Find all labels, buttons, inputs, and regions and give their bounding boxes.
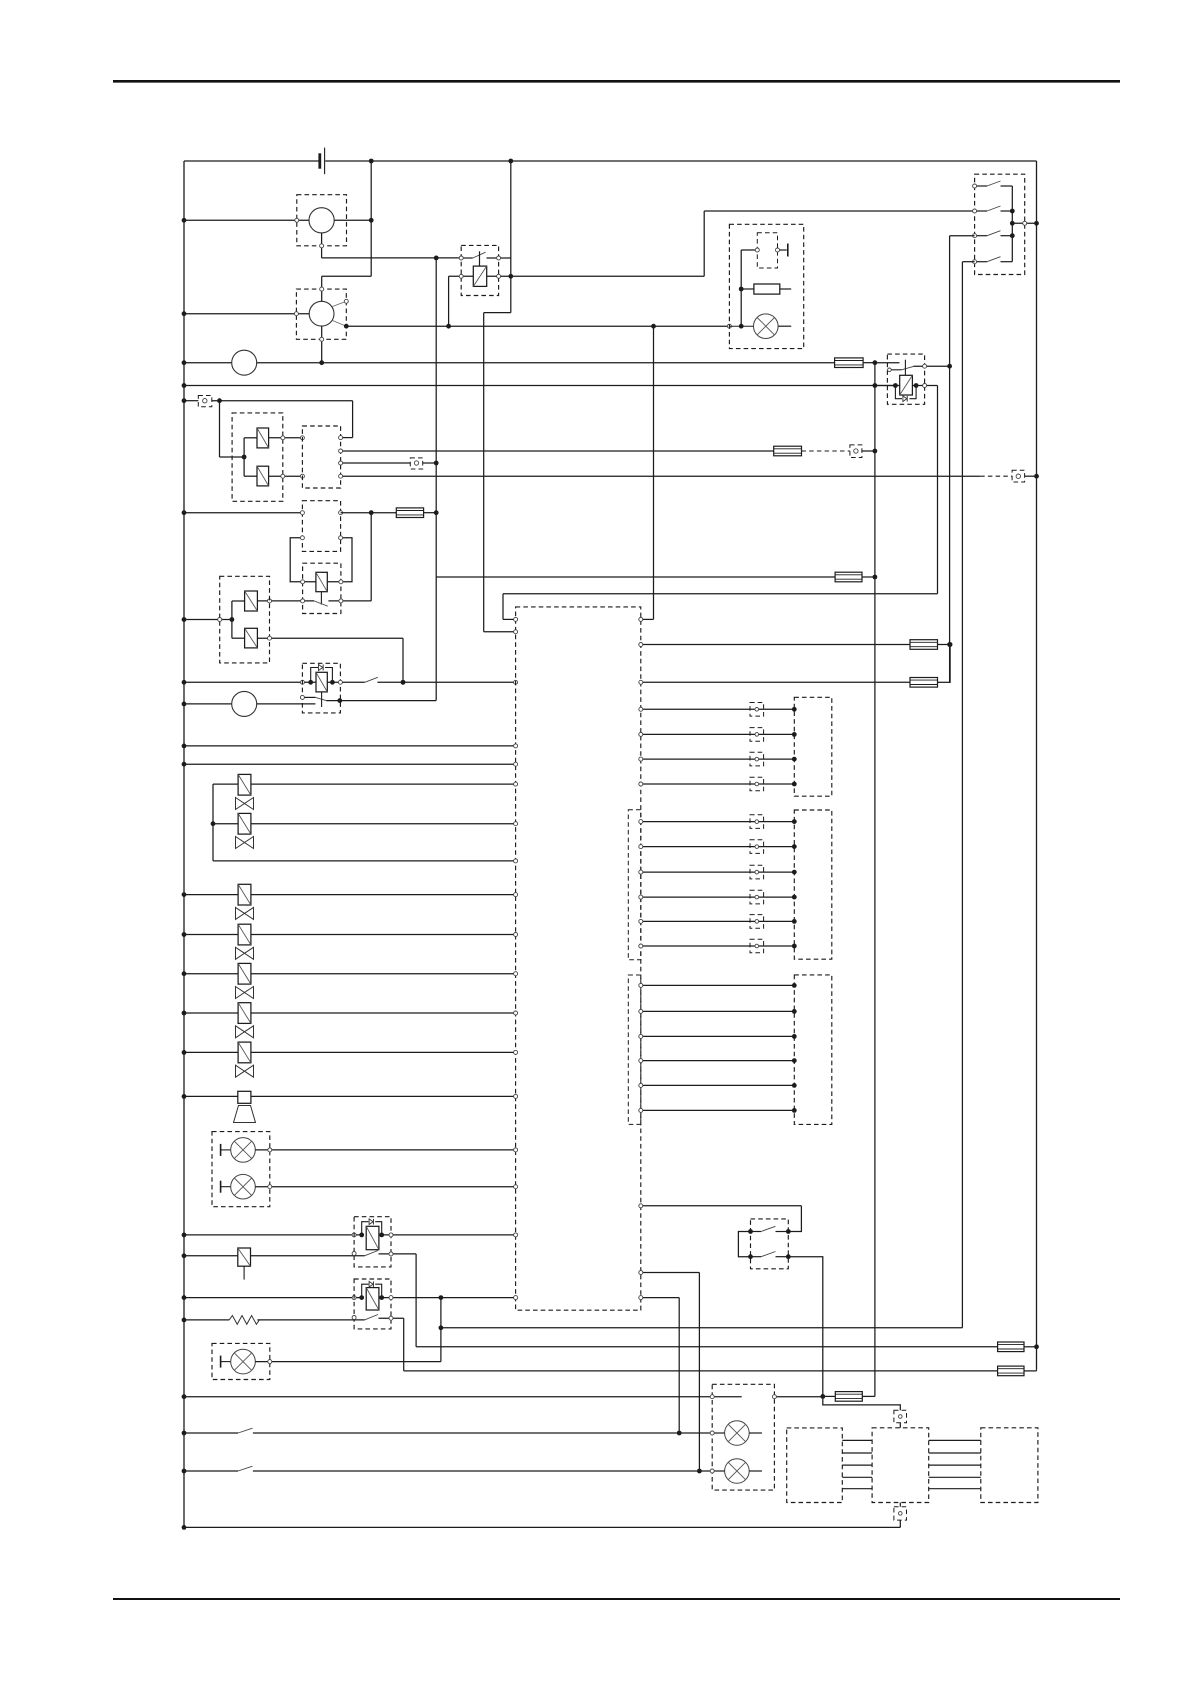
wire flasher up x371 [370, 513, 372, 601]
solenoid valve V7 [238, 1042, 251, 1063]
relay R3 contact NC [302, 696, 315, 698]
wire harness C y1011 [641, 1010, 795, 1012]
relay R4 [354, 1217, 391, 1267]
wire module B pin2 fused [341, 450, 774, 452]
relay R3 [302, 663, 340, 713]
connector B y846 [750, 840, 764, 854]
wire connector C1 node [212, 400, 353, 402]
switch SW2 [751, 1219, 789, 1269]
wire vertical x436 [435, 258, 437, 701]
module C [302, 501, 340, 552]
connector B y921 [750, 915, 764, 929]
wire G2 output [346, 325, 729, 327]
flasher contact stem [320, 592, 322, 605]
wire fuse D to x436 [424, 512, 437, 514]
ECU bracket E2 [628, 810, 641, 960]
wire bottom ground [184, 1526, 900, 1528]
wire harness C y1085 [641, 1084, 795, 1086]
flasher switch wire [257, 600, 314, 602]
wire meter to fuse A [257, 362, 835, 364]
wire SW2 out drop x822 [788, 1257, 823, 1397]
wire R1 coil right [487, 275, 705, 277]
wire resistor to R5 contact [257, 1319, 364, 1321]
relay R3 contact out [326, 700, 436, 702]
wire valve V5 row [184, 973, 238, 975]
wire y593 to ECU [503, 593, 938, 595]
relay R4 blade [365, 1251, 379, 1256]
switch SW-A blade [238, 1428, 253, 1433]
wire bus to module C [184, 512, 302, 514]
switch SW1 contact y211 [975, 210, 987, 212]
wire M2 bottom to ground wire [899, 1520, 901, 1527]
wire R2 contact out [914, 365, 950, 367]
wire M2-M3 y1440 [929, 1439, 981, 1441]
wire M1-M2 y1477 [842, 1476, 872, 1478]
wire K2b drop x403 [402, 638, 404, 682]
wire vertical x510 from top [510, 161, 512, 313]
resistor F [754, 284, 780, 294]
wire SW2 common U [738, 1232, 750, 1257]
wire x371 jog to G2 [322, 275, 372, 277]
wire R4 contact out [379, 1253, 417, 1255]
resistor RS1 [229, 1316, 259, 1325]
wire M1-M2 y1488 [842, 1488, 872, 1490]
wire harness B y872 [641, 871, 795, 873]
wire vertical x371 lower [370, 220, 372, 276]
switch SW2 bottom contact [751, 1256, 762, 1258]
solenoid valve V3 [238, 884, 251, 905]
wire bus fuse feed [184, 362, 232, 364]
coil box K2 [220, 576, 270, 663]
coil K2b [245, 628, 258, 648]
relay R1 contact [461, 257, 473, 259]
connector B y946 [750, 939, 764, 953]
G2 brush lower [333, 321, 347, 327]
wire resistor F leads [741, 288, 754, 290]
relay R2 coil [900, 375, 913, 395]
top page rule [113, 80, 1120, 83]
wire bus to relay R5 coil [184, 1297, 362, 1299]
wire ECU R pin y619 [641, 618, 654, 620]
wire bus to G1 [184, 219, 309, 221]
solenoid valve V5 [238, 963, 251, 984]
wire harness B y821 [641, 821, 795, 823]
connector A y734 [750, 728, 764, 742]
wire bus to connector C1 [184, 400, 198, 402]
relay R1 [461, 245, 498, 295]
ECU bracket E3 [628, 975, 641, 1124]
relay R5 diode loop [362, 1284, 369, 1297]
motor G2 [296, 289, 346, 339]
wire lamp L1b to ECU [255, 1186, 515, 1188]
relay R4 diode loop [362, 1222, 369, 1235]
wire K1 common [243, 438, 245, 476]
lamp L3b [725, 1459, 750, 1484]
wire fuse link x950 [949, 645, 951, 683]
lamp box L2 [212, 1343, 270, 1379]
relay R2 rest stub [888, 368, 892, 372]
wire R2 coil left [875, 385, 900, 387]
module B [302, 426, 340, 488]
wire meter M2 to R3 [257, 703, 316, 705]
wire harness A y709 [641, 708, 795, 710]
wire M2-M3 y1453 [929, 1452, 981, 1454]
wire M1-M2 y1440 [842, 1439, 872, 1441]
wire F vertical [740, 250, 742, 326]
wire L3 feed stub [712, 1396, 742, 1398]
wire SW1 common out [1012, 222, 1036, 224]
wire valve bracket [212, 784, 214, 861]
wire R5 out drop x403 [403, 1318, 405, 1371]
ammeter M2 [232, 691, 257, 716]
relay R5 coil [366, 1288, 379, 1310]
coil K1a [257, 428, 269, 448]
wire jog to x483 [484, 312, 511, 314]
lamp L3a [725, 1421, 750, 1446]
wire K1a to module B [269, 437, 303, 439]
switch SW-B blade [238, 1466, 253, 1471]
wire module C left leg [290, 538, 316, 582]
wire R3 coil right / ignition switch [327, 681, 365, 683]
relay R2 input stub [875, 362, 900, 364]
connector A y759 [750, 752, 764, 766]
relay R4 coil [366, 1226, 379, 1249]
wire harness A y734 [641, 733, 795, 735]
lamp L1a [220, 1144, 222, 1156]
wire left supply bus [183, 161, 185, 1527]
wire horn row [184, 1095, 238, 1097]
wire bracket to ECU [213, 860, 516, 862]
fuse box F [729, 224, 803, 348]
wire harness A y759 [641, 758, 795, 760]
wire ECU R pin y1298 [641, 1297, 679, 1299]
wire valve V7 row [184, 1051, 238, 1053]
wire R2 coil drop x937 [937, 386, 939, 594]
connector C3 [410, 458, 422, 469]
sensor S1 wire [184, 1255, 238, 1257]
connector M2 bottom [899, 1503, 901, 1507]
wire sensor to R4 contact [251, 1255, 365, 1257]
wire ECU R pin y1205 to switch SW2 [641, 1205, 802, 1207]
wire harness B y921 [641, 920, 795, 922]
connector F inner [757, 233, 777, 268]
solenoid valve V6 [238, 1003, 251, 1024]
relay R3 stem [321, 692, 323, 707]
wire valve V1 row [213, 783, 238, 785]
wire right bus [1036, 161, 1038, 1369]
wire ECU R pin y644 fused [641, 644, 910, 646]
wire R1 coil return down x448 [448, 276, 450, 326]
wire connector C3 to x436 [423, 462, 437, 464]
flasher module D [303, 563, 341, 613]
wire G1 to node x371 [334, 219, 371, 221]
wire harness C y1036 [641, 1035, 795, 1037]
wire M1-M2 y1465 [842, 1464, 872, 1466]
wire harness B y846 [641, 846, 795, 848]
generator G1 [297, 195, 347, 246]
G2 brush upper [333, 301, 347, 306]
wire valve V3 row [184, 894, 238, 896]
wire harness C y1060 [641, 1060, 795, 1062]
wire bus to tail lamps [184, 1396, 712, 1398]
wire connector C1 drop [219, 401, 221, 457]
lamp F [754, 314, 779, 339]
relay R5 [354, 1279, 391, 1329]
wire bus to ECU pin L5 [184, 763, 516, 765]
wire module B pin3 to connector [341, 462, 411, 464]
wire module C right leg [327, 538, 352, 582]
connector B y821 [750, 815, 764, 829]
wire x436 tap to fuse C [436, 576, 835, 578]
connector A y784 [750, 777, 764, 791]
wire K1b to module B [269, 475, 303, 477]
switch SW-A wire [184, 1432, 238, 1434]
solenoid valve V2 [238, 813, 251, 834]
wire G1 stem down [321, 233, 323, 258]
wire harness C y985 [641, 984, 795, 986]
connector C4 [1012, 470, 1025, 482]
wire M1-M2 y1453 [842, 1452, 872, 1454]
switch SW-B wire [184, 1470, 238, 1472]
wire M2-M3 y1488 [929, 1488, 981, 1490]
wire coil node to switch SW1 [703, 211, 705, 276]
battery B1 [318, 153, 321, 168]
wire bus to G2 [184, 313, 309, 315]
wire SW1 c4 feed x962 [962, 261, 974, 263]
wire bus to ECU pin L4 [184, 745, 516, 747]
wire fuse A to node [863, 362, 875, 364]
relay R2 [887, 354, 924, 404]
wire ECU L pin y631 [484, 631, 516, 633]
wire lamp L1a to ECU [255, 1149, 515, 1151]
lamp box L3 [712, 1384, 774, 1490]
switch SW1 common bar [1011, 186, 1013, 262]
switch SW2 top contact [751, 1231, 762, 1233]
wire harness B y897 [641, 896, 795, 898]
wire ECU R pin y1272 [641, 1272, 700, 1274]
wire R5 coil to ECU [382, 1297, 516, 1299]
wire F inner left [741, 249, 757, 251]
relay R2 pivot [904, 360, 906, 376]
wire bus to relay R2 coil [184, 385, 895, 387]
coil K1b [257, 466, 269, 486]
wire y1327 to x962 [441, 1327, 963, 1329]
module E1 [794, 697, 832, 796]
ECU connector block [516, 607, 641, 1310]
wire switch to ECU [377, 681, 515, 683]
wire R5 contact out [379, 1317, 404, 1319]
fuse F1 [910, 640, 938, 650]
connector M2 top [894, 1410, 907, 1423]
switch SW1 [975, 174, 1025, 274]
wire top feed [184, 160, 319, 162]
horn H1 [238, 1091, 251, 1103]
wire SW1 c3 feed x949 [950, 235, 975, 237]
connector C1 [198, 396, 212, 407]
fuse FB [774, 446, 802, 456]
wire G2 stem down [321, 326, 323, 363]
wire bus to relay R4 coil [184, 1234, 362, 1236]
relay R3 coil [316, 672, 327, 692]
lamp L2a [220, 1356, 222, 1368]
wire M2-M3 y1465 [929, 1464, 981, 1466]
module E3 [794, 975, 832, 1125]
lamp box L1 [212, 1132, 270, 1207]
connector A y709 [750, 703, 764, 717]
fuse FD [396, 508, 423, 518]
wire valve V6 row [184, 1012, 238, 1014]
switch SW1 contact y186 [975, 185, 987, 187]
relay R5 blade [365, 1315, 379, 1320]
wire harness B y946 [641, 945, 795, 947]
ammeter M2 wire [184, 703, 232, 705]
fuse FC [835, 572, 862, 582]
wire fuse B dashed link [802, 450, 850, 452]
terminal F T-bar [778, 249, 787, 251]
wire R4 out drop x416 [415, 1254, 417, 1347]
connector C2 [850, 445, 862, 458]
wire K2b output [257, 637, 403, 639]
wire module C to fuse D [341, 512, 397, 514]
coil K2a [245, 591, 258, 611]
connector B y872 [750, 865, 764, 879]
wire valve V4 row [184, 934, 238, 936]
wire harness C y1110 [641, 1109, 795, 1111]
resistor RS1 wire [184, 1319, 229, 1321]
switch SW1 contact y235 [975, 235, 987, 237]
wire module B pin4 to right bus [341, 475, 981, 477]
relay R2 blade [902, 366, 914, 369]
fuse F3 [835, 1392, 862, 1402]
wire vertical x875 long [874, 363, 876, 1397]
switch SW1 contact y261 [975, 261, 987, 263]
wire harness A y784 [641, 783, 795, 785]
relay R2 diode loop [895, 386, 902, 399]
wire R2 coil right [912, 385, 937, 387]
relay R3 diode loop [311, 668, 318, 683]
wire R4 coil to ECU [382, 1234, 516, 1236]
flasher coil [316, 572, 327, 591]
wire K2 common [231, 601, 233, 638]
wire G1 output to relay R1 [322, 257, 462, 259]
solenoid valve V1 [238, 774, 251, 795]
wire fuse3 jog to module M2 [823, 1396, 901, 1410]
solenoid valve V4 [238, 924, 251, 945]
coil box K1 [232, 413, 283, 501]
connector B y897 [750, 890, 764, 904]
wire R1 coil left [449, 275, 474, 277]
wire vertical x483 to module A [483, 313, 485, 632]
fuse F1b [998, 1342, 1024, 1352]
fuse F2b [998, 1366, 1024, 1376]
ammeter M1 [232, 350, 257, 375]
relay R3 blade [315, 697, 326, 700]
wire L3 out stub [774, 1396, 822, 1398]
fuse F2 [910, 678, 938, 688]
wire valve V2 row [213, 823, 238, 825]
wire M2-M3 y1477 [929, 1476, 981, 1478]
relay R1 coil [473, 266, 486, 286]
module M1 [787, 1428, 843, 1503]
ignition switch blade [365, 677, 378, 682]
bottom page rule [113, 1598, 1120, 1600]
sensor S1 [238, 1248, 251, 1266]
wire lamp L2a to x440 [255, 1361, 441, 1363]
fuse FA [835, 358, 864, 368]
wire x440 vertical [440, 1298, 442, 1362]
wire vertical x371 top [370, 161, 372, 220]
wire ECU pass y682 right [641, 681, 910, 683]
wire x352 drop to module B [352, 401, 354, 438]
wire bus to K2 [184, 619, 232, 621]
lamp L1b [220, 1181, 222, 1193]
wire bus to relay R3 [184, 681, 316, 683]
wire connector C2 to bus x875 [862, 450, 875, 452]
module E2 [794, 810, 832, 959]
module M2 [872, 1428, 929, 1503]
wire lamp F lead [729, 325, 753, 327]
module M3 [981, 1428, 1038, 1503]
